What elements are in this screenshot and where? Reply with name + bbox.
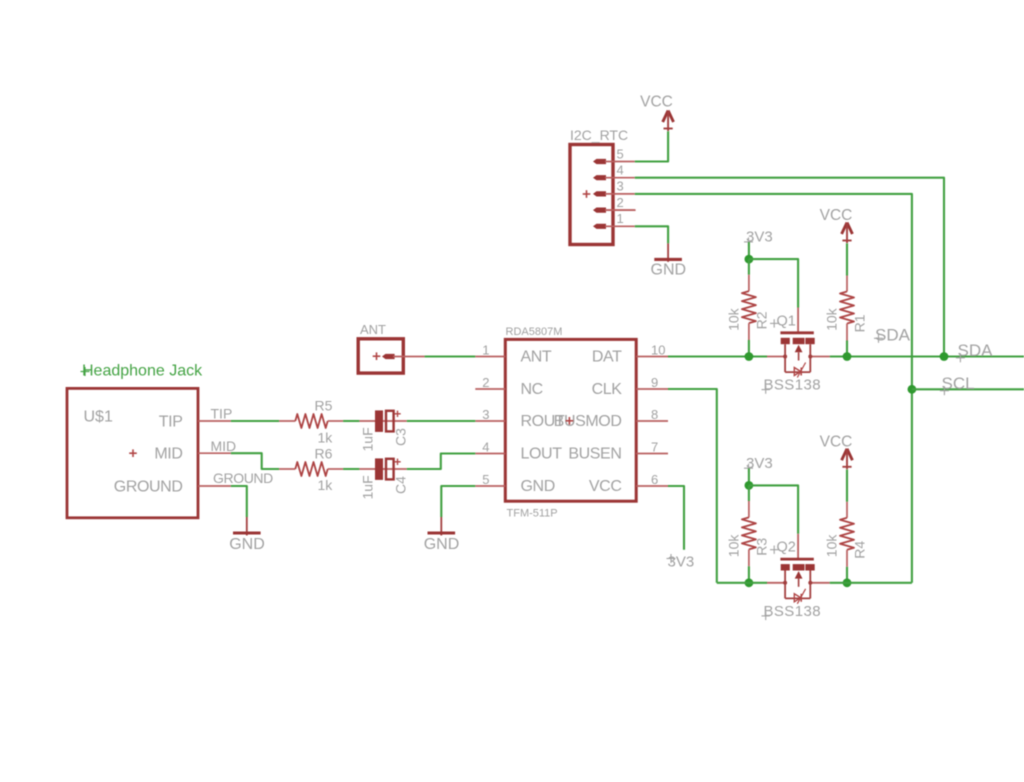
svg-text:BSS138: BSS138 [764, 377, 821, 394]
net label SDA (inner) [874, 325, 911, 344]
capacitor C3 name [393, 428, 409, 446]
net label SCL [940, 374, 975, 395]
svg-text:R6: R6 [315, 446, 333, 462]
node R1 bottom junction [843, 352, 852, 361]
IC pin 4 lead [475, 453, 505, 455]
stub pin2 (n.c.) [605, 209, 636, 211]
transistor Q2 BSS138 [767, 559, 830, 604]
svg-text:10k: 10k [726, 307, 742, 331]
svg-text:6: 6 [651, 472, 658, 487]
transistor Q2 name [770, 540, 796, 556]
svg-text:TFM-511P: TFM-511P [507, 508, 558, 520]
svg-text:R4: R4 [852, 541, 868, 559]
wire R6 to C4 [343, 468, 359, 470]
svg-text:ANT: ANT [360, 322, 386, 337]
pin number 9 [651, 375, 658, 390]
resistor R3 lead bottom [748, 549, 750, 582]
pin name ROUT [521, 413, 565, 430]
svg-text:10k: 10k [726, 534, 742, 558]
pin number 4 [617, 163, 624, 178]
power VCC symbol (R1) [842, 223, 853, 244]
transistor Q2 value BSS138 [762, 603, 821, 620]
svg-text:9: 9 [651, 375, 658, 390]
svg-text:MID: MID [211, 438, 237, 454]
jack pin GROUND lead [198, 485, 231, 487]
svg-text:1uF: 1uF [360, 427, 376, 451]
svg-text:4: 4 [482, 440, 489, 455]
net label MID [211, 438, 237, 454]
svg-text:NC: NC [521, 381, 543, 398]
pin name LOUT [521, 446, 563, 463]
label GND (IC) [424, 536, 460, 553]
capacitor C4 plate right [386, 459, 394, 480]
resistor R1 value 10k [824, 307, 840, 331]
IC pin 10 lead [636, 356, 668, 358]
svg-text:3: 3 [617, 179, 624, 194]
pin number 2 [482, 375, 489, 390]
wire MID jack to R6 [231, 453, 279, 469]
capacitor C4 lead [359, 468, 406, 470]
capacitor C4 polarity + [394, 459, 400, 465]
transistor Q1 value BSS138 [762, 377, 821, 394]
IC pin 9 lead [636, 388, 668, 390]
jack pin name TIP [159, 413, 183, 430]
net label 3V3 (Q1) [746, 229, 773, 246]
resistor R4 name [852, 541, 868, 559]
pin name BUSMOD [554, 413, 622, 430]
ground GND symbol (jack) [233, 517, 261, 536]
label VCC (R1) [820, 207, 853, 224]
capacitor C3 lead [359, 420, 406, 422]
connector pin 5 lead [605, 161, 635, 163]
IC name RDA5807M [506, 326, 563, 338]
resistor R5 value 1k [318, 429, 334, 445]
resistor R3 lead top [748, 485, 750, 517]
wire IC pin6 to 3V3 [668, 486, 684, 550]
svg-text:TIP: TIP [211, 405, 233, 421]
svg-text:3V3: 3V3 [668, 554, 695, 571]
resistor R2 lead bottom [748, 323, 750, 356]
svg-text:2: 2 [617, 195, 624, 210]
wire Q2 to SCL riser [830, 582, 912, 584]
IC value TFM-511P [507, 508, 558, 520]
label VCC (R4) [820, 433, 853, 450]
net label SDA (outer) [956, 341, 993, 362]
svg-text:3V3: 3V3 [746, 229, 773, 246]
Q2 gate lead [797, 534, 799, 560]
svg-text:R5: R5 [315, 397, 333, 413]
resistor R6 body [295, 462, 327, 476]
label VCC (header) [640, 94, 673, 111]
wire pin1 to GND [635, 226, 668, 243]
pin number 2 [617, 195, 624, 210]
pin name BUSEN [568, 446, 621, 463]
resistor R2 body [742, 291, 756, 323]
svg-text:1: 1 [482, 343, 489, 358]
svg-text:BUSEN: BUSEN [568, 446, 621, 463]
wire 3V3 to junction (Q2) [748, 468, 750, 485]
IC pin 7 lead [636, 453, 668, 455]
wire TIP jack to R5 [231, 420, 279, 422]
IC pin 8 lead [636, 420, 668, 422]
resistor R5 lead right [328, 420, 343, 422]
connector pin 5 pad [593, 159, 606, 164]
svg-text:VCC: VCC [820, 433, 853, 450]
IC pin 3 lead [475, 420, 505, 422]
power VCC symbol (R4) [842, 449, 853, 470]
connector pin 4 lead [605, 177, 635, 179]
resistor R3 value 10k [726, 534, 742, 558]
svg-text:10k: 10k [824, 307, 840, 331]
connector pin 4 pad [593, 175, 606, 180]
resistor R3 name [754, 538, 770, 556]
svg-text:VCC: VCC [820, 207, 853, 224]
node R2 bottom junction [745, 352, 754, 361]
svg-text:5: 5 [617, 146, 624, 161]
net label 3V3 (Q2) [746, 455, 773, 472]
resistor R6 name [315, 446, 333, 462]
net label 3V3 (IC VCC) [667, 554, 695, 571]
svg-text:10k: 10k [824, 534, 840, 558]
svg-text:SDA: SDA [875, 325, 911, 344]
net label 3V3 cross (Q2) [744, 464, 753, 473]
svg-text:CLK: CLK [592, 381, 623, 398]
svg-text:3: 3 [482, 407, 489, 422]
IC pin 6 lead [636, 485, 668, 487]
wire 3V3 to Q1 gate [749, 259, 798, 307]
svg-text:U$1: U$1 [84, 408, 113, 425]
pin number 3 [617, 179, 624, 194]
wire C4 to IC pin4 [407, 454, 476, 470]
pin name ANT [521, 349, 552, 366]
svg-text:RDA5807M: RDA5807M [506, 326, 563, 338]
ground GND symbol (IC) [428, 517, 456, 536]
node SDA-pin4 junction [940, 352, 949, 361]
wire IC pin9 CLK [668, 389, 717, 583]
node SCL junction [908, 385, 917, 394]
connector pin 1 lead [605, 225, 635, 227]
svg-text:Q1: Q1 [777, 313, 796, 329]
pin name DAT [592, 349, 622, 366]
svg-text:7: 7 [651, 440, 658, 455]
wire C3 to IC pin3 [407, 420, 476, 422]
capacitor C4 plate left [375, 458, 383, 480]
pin number 1 [617, 211, 624, 226]
resistor R6 lead left [279, 468, 295, 470]
capacitor C4 name [393, 476, 409, 494]
ground GND symbol (header) [654, 243, 682, 262]
connector pin 2 lead [605, 209, 635, 211]
pin number 10 [651, 343, 665, 358]
svg-text:1uF: 1uF [360, 475, 376, 499]
svg-text:GROUND: GROUND [213, 470, 273, 486]
svg-text:10: 10 [651, 343, 665, 358]
wire pin5 to VCC [635, 131, 668, 161]
IC pin 1 lead [475, 356, 505, 358]
jack origin + mark [129, 449, 137, 457]
wire VCC to R4 [846, 470, 848, 502]
pin name CLK [592, 381, 623, 398]
svg-text:1: 1 [617, 211, 624, 226]
resistor R6 lead right [328, 468, 343, 470]
node R4 bottom junction [843, 578, 852, 587]
svg-text:C3: C3 [393, 428, 409, 446]
wire IC pin5 to GND [441, 486, 475, 517]
capacitor C3 polarity + [394, 411, 400, 417]
svg-text:DAT: DAT [592, 349, 622, 366]
node 3V3 junction (Q1) [745, 255, 754, 264]
capacitor C3 plate left [375, 410, 383, 432]
net label GROUND [213, 470, 273, 486]
resistor R2 value 10k [726, 307, 742, 331]
pin number 5 [482, 472, 489, 487]
svg-text:3V3: 3V3 [746, 455, 773, 472]
svg-text:VCC: VCC [640, 94, 673, 111]
resistor R4 value 10k [824, 534, 840, 558]
resistor R1 lead top [846, 276, 848, 292]
jack U$1 body [67, 388, 198, 517]
resistor R5 name [315, 397, 333, 413]
wire CLK row to Q2 [717, 582, 767, 584]
wire GROUND jack to GND [231, 486, 247, 517]
svg-text:2: 2 [482, 375, 489, 390]
svg-text:BSS138: BSS138 [764, 603, 821, 620]
pin number 3 [482, 407, 489, 422]
connector pin 1 pad [593, 224, 606, 229]
svg-text:GND: GND [521, 478, 555, 495]
svg-text:GROUND: GROUND [114, 478, 183, 495]
node 3V3 junction (Q2) [745, 481, 754, 490]
jack pin name GROUND [114, 478, 183, 495]
svg-text:LOUT: LOUT [521, 446, 563, 463]
svg-text:ANT: ANT [521, 349, 552, 366]
svg-text:GND: GND [651, 261, 687, 278]
svg-text:Headphone Jack: Headphone Jack [82, 363, 203, 380]
svg-text:4: 4 [617, 163, 624, 178]
antenna pad [382, 354, 395, 359]
svg-text:GND: GND [424, 536, 460, 553]
pin number 5 [617, 146, 624, 161]
resistor R4 lead top [846, 502, 848, 518]
svg-text:SDA: SDA [958, 341, 994, 360]
wire pin3 to SCL net [635, 194, 912, 583]
Q1 gate lead [797, 308, 799, 334]
pin name NC [521, 381, 543, 398]
wire 3V3 to Q2 gate [749, 485, 798, 533]
svg-text:GND: GND [229, 536, 265, 553]
svg-text:I2C_RTC: I2C_RTC [570, 127, 628, 143]
svg-text:SCL: SCL [942, 374, 975, 393]
node R3 bottom junction [745, 578, 754, 587]
resistor R1 body [840, 292, 854, 324]
pin name GND [521, 478, 555, 495]
IC pin 2 lead [475, 388, 505, 390]
transistor Q1 name [770, 313, 796, 329]
jack pin TIP lead [198, 420, 231, 422]
IC origin + mark [566, 417, 574, 425]
wire VCC to R1 [846, 243, 848, 275]
antenna origin + mark [373, 352, 381, 360]
resistor R2 name [754, 311, 770, 329]
capacitor C3 value 1uF [360, 427, 376, 451]
wire pin4 to SDA net [635, 178, 944, 357]
power VCC symbol (header) [663, 111, 674, 132]
svg-text:1k: 1k [318, 429, 334, 445]
capacitor C4 value 1uF [360, 475, 376, 499]
antenna ANT body [358, 322, 403, 373]
connector pin 3 pad [593, 191, 606, 196]
resistor R4 lead bottom [846, 550, 848, 583]
svg-text:MID: MID [154, 446, 182, 463]
IC U2 RDA5807M body [505, 339, 636, 501]
svg-text:BUSMOD: BUSMOD [554, 413, 622, 430]
net label 3V3 cross (Q1) [744, 237, 753, 246]
wire SDA right segment [830, 355, 1024, 357]
resistor R6 value 1k [318, 477, 334, 493]
connector pin 3 lead [605, 193, 635, 195]
svg-text:Q2: Q2 [777, 540, 796, 556]
wire R5 to C3 [343, 420, 359, 422]
jack pin name MID [154, 446, 182, 463]
label GND (header) [651, 261, 687, 278]
resistor R5 body [295, 414, 327, 428]
pin number 4 [482, 440, 489, 455]
connector pin 2 pad [593, 208, 606, 213]
resistor R1 name [852, 314, 868, 332]
transistor Q1 BSS138 [767, 333, 830, 378]
net label TIP [211, 405, 233, 421]
label Headphone Jack [81, 363, 204, 380]
resistor R5 lead left [279, 420, 295, 422]
svg-text:8: 8 [651, 407, 658, 422]
antenna pin lead [393, 356, 425, 358]
jack name U$1 [84, 408, 113, 425]
resistor R4 body [840, 518, 854, 550]
svg-text:R1: R1 [852, 314, 868, 332]
connector J1 I2C_RTC body [570, 127, 628, 244]
IC pin 5 lead [475, 485, 505, 487]
svg-text:VCC: VCC [589, 478, 622, 495]
capacitor C3 plate right [386, 411, 394, 432]
svg-text:TIP: TIP [159, 413, 183, 430]
wire SCL to edge [912, 388, 1024, 390]
connector origin + mark [583, 190, 591, 198]
wire 3V3 to junction (Q1) [748, 242, 750, 259]
pin name VCC [589, 478, 622, 495]
pin number 8 [651, 407, 658, 422]
resistor R1 lead bottom [846, 324, 848, 357]
resistor R3 body [742, 517, 756, 549]
jack pin MID lead [198, 452, 231, 454]
wire IC pin10 DAT to Q1 [668, 355, 767, 357]
svg-text:R3: R3 [754, 538, 770, 556]
label GND (jack) [229, 536, 265, 553]
svg-text:C4: C4 [393, 476, 409, 494]
svg-text:R2: R2 [754, 311, 770, 329]
resistor R2 lead top [748, 259, 750, 291]
svg-text:1k: 1k [318, 477, 334, 493]
pin number 1 [482, 343, 489, 358]
svg-text:5: 5 [482, 472, 489, 487]
pin number 6 [651, 472, 658, 487]
pin number 7 [651, 440, 658, 455]
wire ANT to IC pin1 [425, 355, 476, 357]
